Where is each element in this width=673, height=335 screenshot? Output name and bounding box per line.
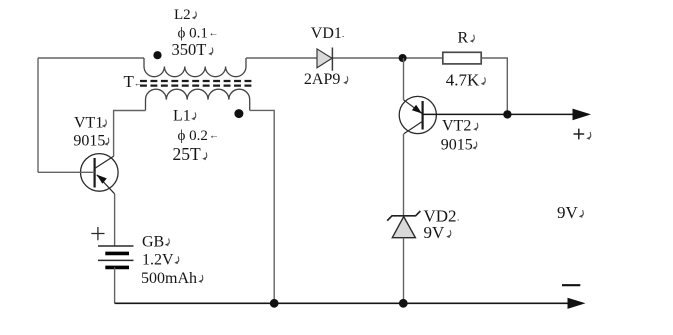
svg-text:ϕ 0.2: ϕ 0.2	[178, 128, 208, 144]
transformer core T (two dashed lines)	[140, 80, 252, 82]
wire: output plus line from VT2 bar to arrow	[423, 113, 573, 115]
battery GB plate 3 (long thin)	[98, 259, 134, 261]
svg-text:500mAh: 500mAh	[141, 270, 197, 287]
label plus terminal	[574, 129, 585, 140]
wire: VT2 collector down to zener VD2	[403, 134, 405, 216]
svg-text:←: ←	[209, 131, 219, 142]
svg-text:VD1: VD1	[311, 25, 342, 42]
svg-text:.: .	[342, 29, 344, 39]
battery GB plus sign	[91, 227, 104, 240]
svg-text:.: .	[457, 213, 459, 223]
resistor R (4.7K)	[443, 52, 481, 64]
phase dot of L1	[234, 109, 243, 118]
arrow: minus output terminal	[568, 298, 586, 309]
inductor L2 (transformer secondary winding, 5 humps)	[144, 58, 246, 77]
svg-text:L2: L2	[174, 7, 191, 23]
transistor VT2 (9015) circle	[399, 96, 436, 133]
svg-text:9V: 9V	[557, 203, 579, 222]
transistor VT1 emitter lead with arrow (points to bar)	[97, 175, 115, 194]
node D: junction bottom rail / VD2	[399, 299, 408, 308]
zener diode VD2 triangle	[392, 217, 415, 238]
wire: battery minus to bottom rail	[114, 267, 116, 303]
wire: bottom rail	[115, 302, 568, 304]
svg-text:VT1: VT1	[74, 114, 103, 131]
battery GB plate 2 (short thick)	[105, 252, 129, 256]
wire: top rail from L2 to resistor (through VD1)	[246, 57, 443, 59]
diode VD1 (2AP9)	[317, 49, 332, 68]
node A: junction of VD1, R, VT2 emitter	[399, 54, 407, 62]
svg-text:2AP9: 2AP9	[304, 71, 340, 88]
label minus terminal	[562, 284, 580, 286]
transistor VT1 base bar	[93, 158, 95, 188]
svg-text:T: T	[124, 72, 135, 91]
svg-text:←: ←	[209, 28, 219, 39]
transistor VT2 emitter lead with arrow (points to bar)	[404, 100, 422, 114]
wire: zener VD2 anode to bottom rail	[403, 238, 405, 304]
wire: VT1 base lead from left rail	[38, 171, 95, 173]
wire: left rail (VT1 base to top)	[37, 58, 39, 172]
svg-text:4.7K: 4.7K	[446, 70, 480, 89]
svg-text:1.2V: 1.2V	[142, 251, 174, 268]
svg-text:ϕ 0.1: ϕ 0.1	[178, 25, 208, 41]
svg-text:9015: 9015	[441, 137, 473, 154]
svg-text:9V: 9V	[424, 223, 446, 242]
battery GB plate 4 (short thick, -)	[105, 266, 129, 270]
battery GB plate 1 (long thin, +)	[98, 245, 134, 247]
zener diode VD2 (9V) cathode bar with bent ends	[387, 211, 420, 221]
phase dot of L2	[153, 51, 161, 59]
wire: node A down to VT2	[403, 58, 405, 100]
svg-text:350T: 350T	[172, 40, 207, 59]
svg-text:R: R	[458, 30, 469, 47]
arrow: plus output terminal	[573, 109, 592, 121]
transistor VT2 collector lead	[404, 121, 423, 134]
transistor VT1 collector lead	[95, 156, 114, 168]
svg-text:VT2: VT2	[442, 118, 471, 135]
wire: VT1 emitter down to battery plus	[114, 194, 116, 246]
wire: top-left horizontal to L2 start	[38, 57, 144, 59]
svg-text:25T: 25T	[173, 144, 202, 164]
node B: output junction (R bottom / VT2 / plus output)	[503, 110, 511, 118]
wire: L1 left end to VT1 collector	[114, 111, 146, 157]
svg-text:GB: GB	[142, 233, 164, 250]
wire: L1 right end down to bottom rail	[250, 110, 275, 303]
node C: junction bottom rail / L1 return	[270, 299, 279, 308]
svg-text:←: ←	[134, 79, 142, 88]
wire: resistor right side down to output node	[481, 58, 507, 114]
svg-text:9015: 9015	[73, 133, 105, 150]
svg-text:L1: L1	[173, 107, 191, 124]
transistor VT1 (9015) circle	[81, 154, 119, 192]
transistor VT2 base bar	[422, 101, 424, 130]
inductor L1 (transformer primary winding, 5 humps)	[146, 89, 250, 110]
